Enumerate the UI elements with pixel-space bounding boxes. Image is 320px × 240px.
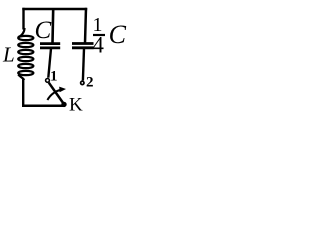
- svg-text:L: L: [2, 43, 15, 67]
- switch K pivot junction dot: [61, 102, 66, 107]
- wire: C branch upper (top wire to plate): [51, 9, 54, 43]
- capacitor C top plate: [40, 42, 60, 45]
- switch K lever: [49, 83, 64, 104]
- svg-text:2: 2: [86, 75, 94, 91]
- contact node 1 circle: [46, 79, 50, 83]
- capacitor C/4 bottom plate: [72, 46, 94, 49]
- svg-text:1: 1: [50, 69, 58, 85]
- capacitor C/4 top plate: [72, 42, 94, 45]
- switch K throw arrow: [47, 90, 61, 100]
- switch K throw arrow head: [59, 87, 66, 93]
- svg-text:K: K: [69, 95, 83, 116]
- wire: right branch lower (plate to contact 2): [83, 48, 84, 80]
- wire: C branch lower (plate to contact 1): [48, 49, 51, 78]
- svg-text:C: C: [109, 20, 127, 49]
- wire: bottom horizontal: [22, 105, 65, 108]
- contact node 2 circle: [81, 81, 84, 84]
- wire: right branch upper (corner to plate): [85, 8, 86, 43]
- svg-text:4: 4: [92, 33, 104, 58]
- inductor L coil: [18, 28, 33, 80]
- wire: top horizontal: [22, 8, 87, 11]
- wire: left vertical lower (coil to corner): [22, 79, 24, 108]
- wire: left vertical upper (corner to coil): [22, 8, 24, 30]
- svg-text:C: C: [35, 17, 52, 44]
- capacitor C bottom plate: [40, 47, 60, 50]
- label 1/4 C : fraction bar: [93, 34, 105, 36]
